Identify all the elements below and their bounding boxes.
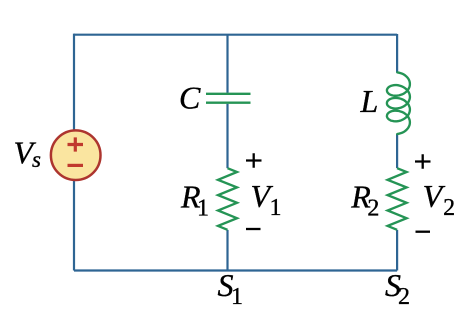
voltage source minus sign <box>68 164 84 167</box>
voltage source plus sign <box>68 137 84 151</box>
svg-text:C: C <box>179 80 201 116</box>
wire right branch lower (R2 to bottom wire) <box>396 230 398 271</box>
capacitor C plates <box>206 94 251 103</box>
wire middle branch upper (top wire to capacitor) <box>226 34 228 93</box>
svg-text:R2: R2 <box>350 179 379 222</box>
svg-text:S1: S1 <box>218 267 244 310</box>
minus sign of V1 polarity <box>246 228 261 230</box>
svg-text:Vs: Vs <box>14 134 42 172</box>
svg-text:V2: V2 <box>423 178 456 221</box>
voltage source Vs circle <box>51 130 101 180</box>
wire right branch between inductor and R2 <box>396 134 398 168</box>
inductor L coil <box>387 72 410 134</box>
wire right branch upper (top wire to inductor) <box>396 34 398 73</box>
svg-text:S2: S2 <box>385 267 410 310</box>
resistor R2 zigzag <box>388 168 407 230</box>
wire bottom horizontal <box>74 269 397 271</box>
wire top horizontal <box>74 34 397 36</box>
svg-text:V1: V1 <box>251 178 282 221</box>
plus sign of V1 polarity <box>246 153 262 167</box>
resistor R1 zigzag <box>218 168 237 230</box>
svg-text:R1: R1 <box>180 179 209 222</box>
minus sign of V2 polarity <box>416 231 431 233</box>
wire left vertical <box>73 34 75 271</box>
svg-text:L: L <box>360 83 379 119</box>
plus sign of V2 polarity <box>415 154 431 168</box>
wire middle branch lower (R1 to bottom wire) <box>226 230 228 271</box>
wire middle branch between capacitor and R1 <box>226 104 228 168</box>
